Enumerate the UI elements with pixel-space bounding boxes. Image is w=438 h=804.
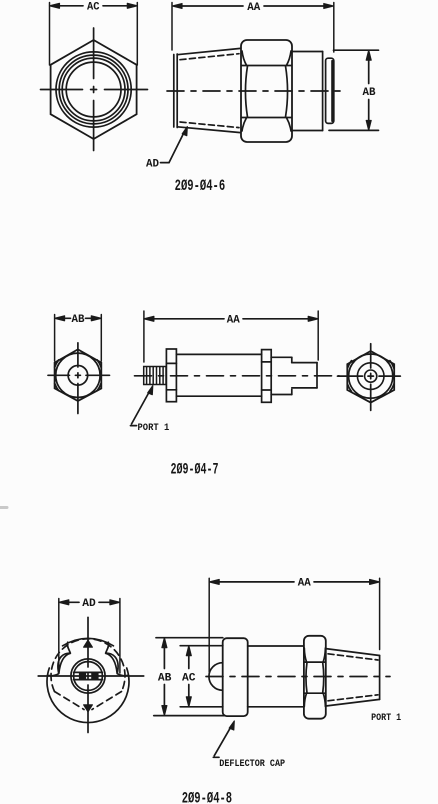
dimension AD [59, 598, 120, 673]
side view: end seal ring [326, 58, 334, 123]
vertical centerline [370, 344, 372, 368]
dimension AC (bottom fig) [180, 646, 223, 707]
slot bottom line [74, 679, 103, 681]
horizontal centerline [48, 374, 70, 376]
horizontal centerline [338, 375, 363, 377]
svg-text:AC: AC [182, 672, 196, 684]
horizontal centerline [38, 675, 79, 677]
svg-text:AC: AC [87, 2, 100, 14]
svg-text:PORT 1: PORT 1 [371, 712, 401, 724]
svg-text:AB: AB [363, 87, 376, 99]
slot top line [74, 671, 103, 673]
right notch leaf [106, 653, 118, 674]
side view: hex locknut 1 [166, 349, 176, 402]
thread circle 2 [59, 55, 128, 124]
centerline (side view top fig) [167, 90, 344, 92]
svg-text:DEFLECTOR CAP: DEFLECTOR CAP [219, 758, 285, 770]
vertical centerline [87, 617, 89, 667]
leader PORT 1 [131, 386, 170, 434]
side view: body cylinder [176, 354, 261, 396]
hexagon [55, 349, 102, 401]
side view: hex locknut 2 [262, 350, 272, 403]
side view: deflector cap [223, 638, 248, 716]
dimension AB (mid fig) [55, 314, 102, 361]
chamfer arc TL [55, 360, 59, 367]
right notch edge [106, 642, 109, 653]
front view hex nut 209-04-6 [41, 28, 148, 151]
svg-text:2Ø9-Ø4-7: 2Ø9-Ø4-7 [171, 461, 219, 479]
chamfer arc BL [55, 383, 59, 390]
svg-text:PORT 1: PORT 1 [138, 422, 170, 434]
dimension AA (bottom fig) [209, 578, 379, 672]
middle circle [357, 363, 384, 390]
svg-text:2Ø9-Ø4-8: 2Ø9-Ø4-8 [182, 789, 232, 804]
horizontal centerline [41, 89, 83, 91]
side view: cylinder section [292, 52, 323, 131]
bore circle [365, 370, 377, 382]
dimension AA (top fig) [172, 2, 334, 52]
chamfer arc BR [97, 383, 101, 390]
hidden hex circle (dashed) [51, 639, 125, 692]
svg-text:AB: AB [72, 314, 85, 326]
leader DEFLECTOR CAP [213, 721, 285, 770]
left notch leaf [58, 653, 70, 674]
side view: body cylinder [248, 646, 304, 707]
outer circle [56, 353, 100, 397]
svg-text:AA: AA [298, 578, 311, 590]
chamfer arc BL [347, 384, 351, 392]
edge smudge [0, 506, 7, 509]
front view deflector cap 209-04-8 [38, 617, 144, 732]
chamfer arc TL [347, 361, 351, 369]
side view: dome bump [209, 663, 223, 691]
vertical centerline [77, 343, 79, 367]
svg-text:AD: AD [146, 158, 159, 170]
chamfer arc TR [390, 361, 394, 369]
right notch shelf [117, 674, 127, 676]
svg-text:AD: AD [82, 598, 96, 610]
hexagon [347, 351, 394, 403]
hidden hex side dashed left [55, 692, 85, 710]
chamfer arc TR [97, 360, 101, 367]
side view: tapered pipe thread (port 1) [326, 649, 380, 706]
side view: tapered pipe thread [174, 48, 241, 132]
nozzle outer circle [71, 659, 105, 693]
bore circle [68, 366, 88, 386]
svg-text:AA: AA [227, 315, 240, 327]
nozzle inner circle [74, 662, 103, 691]
slot block left [79, 673, 86, 679]
side view: step cylinder [271, 357, 292, 394]
hidden hex corner top [84, 640, 93, 647]
svg-text:2Ø9-Ø4-6: 2Ø9-Ø4-6 [175, 177, 226, 195]
thread circle 1 [56, 52, 131, 127]
dimension AB (bottom fig) [154, 638, 224, 716]
side view: threaded stud port 1 [144, 367, 166, 385]
bore circle [66, 62, 121, 117]
cap dome outline [63, 638, 114, 646]
centerline (side view mid fig) [135, 375, 340, 377]
side view: hex [304, 636, 326, 719]
svg-text:AB: AB [158, 672, 172, 684]
front view hex 209-04-7 [48, 343, 110, 414]
dimension AB (top fig) [329, 50, 379, 130]
left notch edge [67, 642, 70, 653]
leader AD [146, 127, 187, 171]
hexagon [51, 40, 137, 139]
end view hex 209-04-7 [338, 344, 401, 411]
hidden hex side dashed right [92, 692, 122, 710]
slot block right [91, 673, 98, 679]
svg-text:AA: AA [247, 2, 260, 14]
outer circle (body) [47, 668, 129, 723]
dimension AC [50, 2, 138, 65]
side view: hex body [241, 40, 292, 142]
left notch shelf [49, 674, 59, 676]
centerline (side view bottom fig) [206, 676, 390, 678]
chamfer arc BR [390, 384, 394, 392]
vertical centerline [93, 28, 95, 79]
dimension AA (mid fig) [144, 311, 318, 362]
outer circle [349, 354, 393, 398]
side view: end cylinder [292, 363, 317, 388]
thread circle 3 [62, 58, 125, 121]
hidden hex corner bottom [84, 705, 93, 712]
